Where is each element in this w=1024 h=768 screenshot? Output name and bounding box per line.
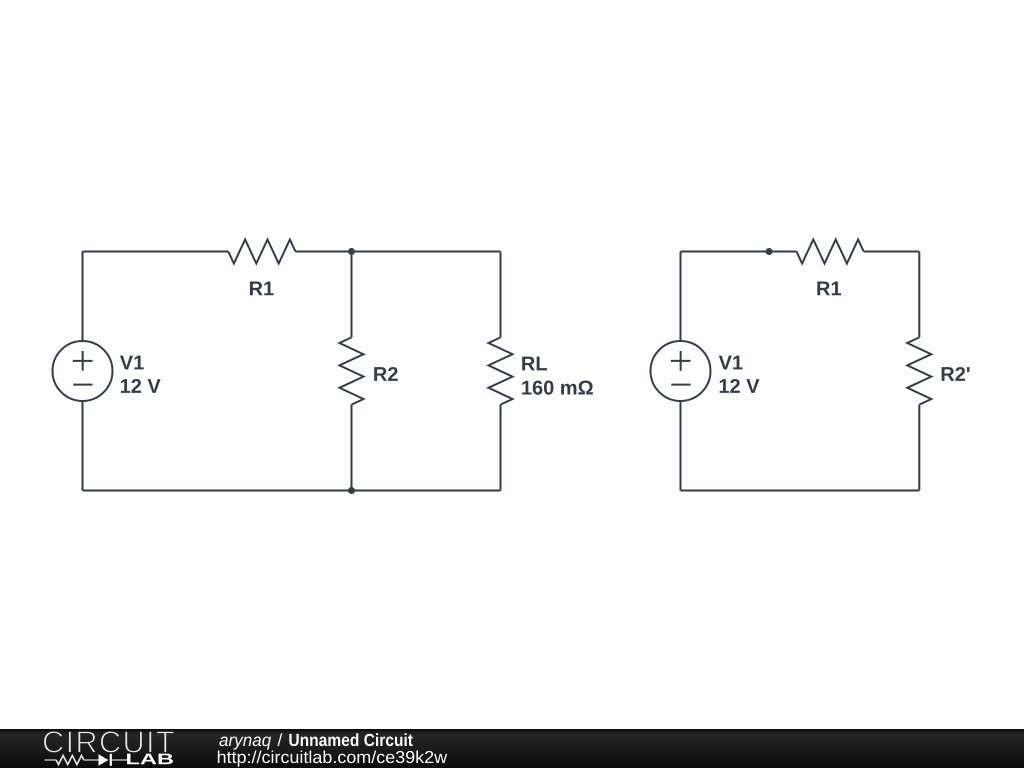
resistor R1 (left circuit) bbox=[228, 240, 295, 264]
wire bottom (left circuit) bbox=[83, 490, 501, 492]
logo resistor zigzag bbox=[56, 756, 84, 765]
wire bottom (right circuit) bbox=[681, 490, 920, 492]
wire top left segment (left circuit) bbox=[83, 251, 229, 253]
logo wire lead middle bbox=[84, 759, 99, 761]
wire left rail top (right circuit) bbox=[680, 252, 682, 342]
label R1 (left) bbox=[250, 282, 274, 296]
wire middle branch upper bbox=[351, 252, 353, 338]
wire top right segment (left circuit) bbox=[296, 251, 501, 253]
node C junction dot (right circuit) bbox=[766, 248, 773, 255]
resistor R2 bbox=[340, 337, 364, 404]
CircuitLab logo wordmark LAB bbox=[127, 754, 173, 765]
wire middle branch lower bbox=[351, 405, 353, 491]
wire right rail lower (right circuit) bbox=[918, 405, 920, 491]
label V1 (right) bbox=[719, 356, 743, 370]
wire right rail lower (left circuit) bbox=[500, 405, 502, 491]
logo wire lead right bbox=[112, 759, 128, 761]
voltage source V1 (right circuit) bbox=[651, 341, 711, 401]
wire left rail bottom (right circuit) bbox=[680, 401, 682, 491]
node A junction dot top bbox=[348, 248, 355, 255]
resistor R2' bbox=[907, 337, 931, 404]
wire right rail upper (left circuit) bbox=[500, 252, 502, 338]
label R2 bbox=[374, 367, 397, 381]
label V1 (left) bbox=[120, 356, 144, 370]
logo diode triangle bbox=[99, 754, 109, 765]
footer url bbox=[218, 750, 447, 766]
wire right rail upper (right circuit) bbox=[918, 252, 920, 338]
node B junction dot bottom bbox=[348, 487, 355, 494]
label 12 V (right) bbox=[720, 379, 760, 393]
wire top left segment (right circuit) bbox=[681, 251, 797, 253]
CircuitLab logo wordmark CIRCUIT bbox=[44, 731, 174, 753]
logo wire lead left bbox=[45, 759, 57, 761]
footer title separator bbox=[277, 733, 282, 746]
wire left rail bottom (left circuit) bbox=[82, 401, 84, 491]
resistor RL bbox=[489, 337, 513, 404]
label 160 mΩ bbox=[522, 381, 593, 395]
label 12 V (left) bbox=[121, 379, 161, 393]
voltage source V1 (left circuit) bbox=[53, 341, 113, 401]
footer title: arynaq bbox=[219, 737, 271, 750]
label R1 (right) bbox=[817, 282, 841, 296]
wire top right segment (right circuit) bbox=[864, 251, 920, 253]
footer title: Unnamed Circuit bbox=[289, 733, 412, 746]
footer bar bbox=[0, 729, 1024, 768]
label RL bbox=[522, 357, 547, 371]
logo diode cathode bar bbox=[110, 754, 112, 766]
resistor R1 (right circuit) bbox=[797, 240, 864, 264]
label R2' bbox=[942, 367, 970, 381]
wire left rail top (left circuit) bbox=[82, 252, 84, 342]
